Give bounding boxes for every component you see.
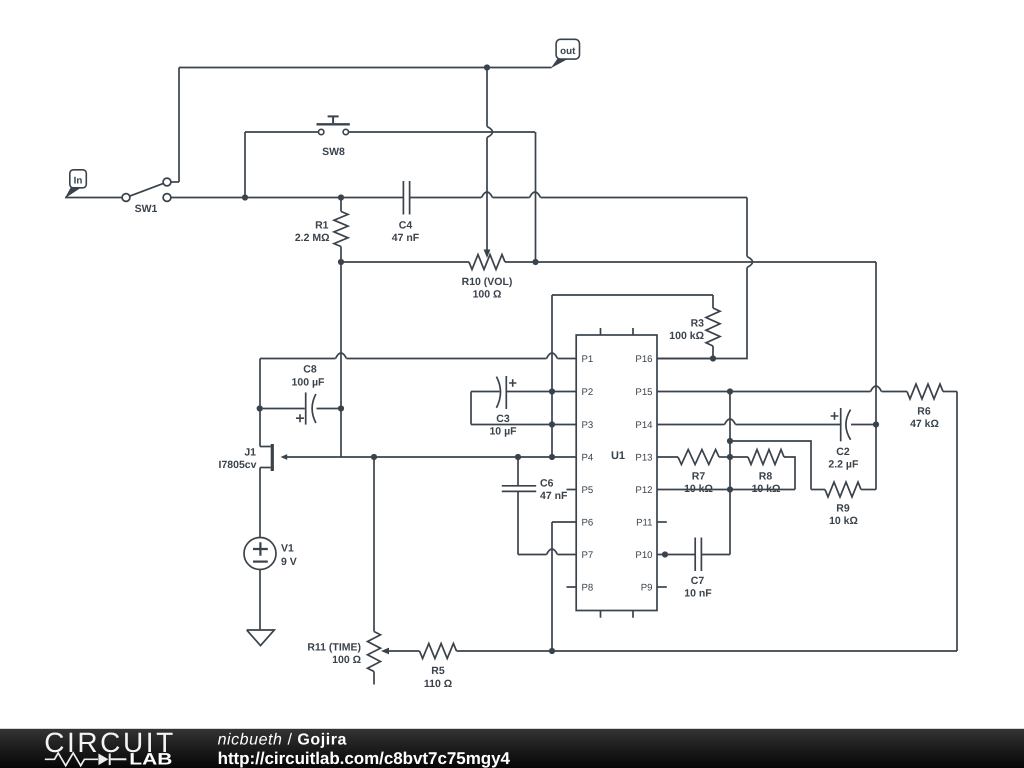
switch SW1 wire arm <box>130 183 164 196</box>
U1 stub P5 <box>567 489 577 491</box>
capacitor C2 polarity <box>831 412 839 420</box>
svg-text:LAB: LAB <box>129 750 172 768</box>
wire C2 right lead <box>851 424 876 426</box>
wire R3 top horizontal <box>552 294 713 296</box>
wire J1 to V1 <box>259 468 261 538</box>
resistor R3 leads <box>712 295 714 359</box>
wire C4 to right corner with hops <box>410 192 747 198</box>
node junction R1 top <box>338 194 344 200</box>
svg-text:2.2 µF: 2.2 µF <box>828 458 859 470</box>
capacitor C8 plate curved <box>312 394 316 423</box>
potentiometer R11 <box>368 632 381 672</box>
svg-text:P14: P14 <box>635 420 653 431</box>
capacitor C8 polarity <box>296 414 304 422</box>
node junction P3 row <box>549 421 555 427</box>
wire vertical P6 column down <box>551 522 553 651</box>
wire SW1 upper contact stub <box>171 181 179 183</box>
resistor R7 <box>678 450 719 465</box>
wire C7 right lead up <box>702 554 731 556</box>
wire R10 to right corner <box>505 261 876 263</box>
svg-text:9 V: 9 V <box>281 556 297 568</box>
svg-text:110 Ω: 110 Ω <box>424 678 452 690</box>
wire C6 bottom lead <box>517 492 519 555</box>
arrow J1 gate <box>281 454 288 460</box>
wire vertical right rail <box>956 392 958 652</box>
svg-text:P2: P2 <box>582 387 594 398</box>
flag out tail <box>551 59 568 69</box>
flag In bubble <box>70 170 87 188</box>
transistor J1 top stub <box>260 446 271 448</box>
switch SW1 upper throw contact <box>163 178 171 186</box>
svg-text:P8: P8 <box>582 583 594 594</box>
wire P12 row <box>657 489 795 491</box>
wire C3 loop vertical <box>470 392 472 425</box>
svg-text:P12: P12 <box>635 485 652 496</box>
wire vertical SW8 corner down to R10 row <box>535 132 537 262</box>
svg-text:P11: P11 <box>636 518 652 529</box>
wire SW8 branch down <box>244 132 246 198</box>
svg-text:P7: P7 <box>582 550 594 561</box>
svg-text:R10 (VOL): R10 (VOL) <box>462 276 513 288</box>
flag In tail <box>65 188 80 199</box>
svg-text:P15: P15 <box>635 387 652 398</box>
flag out bubble <box>556 39 579 59</box>
svg-text:C4: C4 <box>399 220 413 232</box>
footer bar <box>0 729 1024 768</box>
wire P13 to R7 <box>657 456 678 458</box>
svg-text:R8: R8 <box>759 471 773 483</box>
svg-text:C8: C8 <box>303 364 317 376</box>
node junction C6 top <box>515 454 521 460</box>
switch SW8 contact left <box>319 129 324 134</box>
svg-text:100 Ω: 100 Ω <box>332 654 361 666</box>
node junction R1 bottom <box>338 259 344 265</box>
wire top out net <box>179 67 552 69</box>
resistor R8 <box>748 450 784 465</box>
U1 top stubs <box>601 328 634 335</box>
wire vertical R1 column lower <box>340 262 342 457</box>
wire P16 row <box>657 358 713 360</box>
capacitor C7 plate right <box>700 538 702 572</box>
capacitor C6 plate top <box>502 485 536 487</box>
svg-text:R1: R1 <box>315 220 329 232</box>
source V1 minus <box>253 560 268 562</box>
node junction R3 bottom <box>710 355 716 361</box>
wire vertical far-right column <box>875 262 877 490</box>
resistor R5 <box>420 644 457 659</box>
capacitor C2 plate straight <box>840 408 842 441</box>
potentiometer R10 <box>469 255 505 270</box>
node junction at R10 row <box>532 259 538 265</box>
wire R11 bottom stub <box>373 672 375 685</box>
switch SW8 stem <box>332 117 334 123</box>
wire SW1 row to C4 <box>171 197 403 199</box>
wire R8 right lead and drop <box>784 457 795 490</box>
capacitor C3 plate curved <box>496 377 500 408</box>
svg-text:R7: R7 <box>692 471 706 483</box>
wire V1 to ground <box>259 570 261 631</box>
wire J1 gate / P4 row <box>287 456 577 458</box>
switch SW1 lower throw contact <box>163 194 171 202</box>
svg-text:C2: C2 <box>836 446 850 458</box>
wire R8 left lead <box>730 456 748 458</box>
svg-text:P4: P4 <box>582 453 594 464</box>
svg-text:10 nF: 10 nF <box>684 588 712 600</box>
resistor R3 <box>706 308 720 346</box>
capacitor C6 plate bottom <box>502 490 536 492</box>
node junction SW8 branch <box>242 194 248 200</box>
wire P6 to left column <box>552 521 576 523</box>
svg-text:R5: R5 <box>431 665 445 677</box>
capacitor C4 plate left <box>402 181 404 215</box>
node junction R11 top <box>371 454 377 460</box>
capacitor C7 plate left <box>694 538 696 572</box>
transistor J1 bottom stub <box>260 467 271 469</box>
svg-text:P13: P13 <box>635 453 652 464</box>
svg-text:10 µF: 10 µF <box>489 426 517 438</box>
capacitor C3 plate straight <box>505 376 507 409</box>
wire vertical left to SW1 upper throw <box>178 68 180 183</box>
svg-text:SW1: SW1 <box>135 203 158 215</box>
switch SW8 contact right <box>343 129 348 134</box>
node junction P15 column <box>727 388 733 394</box>
wire R9 right lead <box>861 489 876 491</box>
svg-text:100 µF: 100 µF <box>292 377 325 389</box>
svg-text:P3: P3 <box>582 420 594 431</box>
wire SW8 right segment to corner <box>349 131 536 133</box>
wire C3 loop left lead <box>471 391 500 393</box>
switch SW1 pole contact <box>122 194 130 202</box>
wire C8 left lead <box>260 408 305 410</box>
transistor J1 bar <box>271 444 274 471</box>
resistor R1 <box>334 212 348 247</box>
U1 stub P9 <box>657 586 667 588</box>
wire P10 to C7 <box>657 554 695 556</box>
resistor R1 leads <box>340 198 342 263</box>
resistor R9 <box>825 482 861 497</box>
svg-text:100 kΩ: 100 kΩ <box>669 330 704 342</box>
wire P1 row with hops <box>260 353 576 359</box>
svg-text:I7805cv: I7805cv <box>219 459 257 471</box>
capacitor C8 plate straight <box>305 392 307 424</box>
svg-text:2.2 MΩ: 2.2 MΩ <box>295 232 330 244</box>
svg-text:nicbueth / Gojira: nicbueth / Gojira <box>218 732 347 749</box>
node junction C8 left <box>257 405 263 411</box>
svg-text:47 kΩ: 47 kΩ <box>910 418 939 430</box>
svg-text:V1: V1 <box>281 543 294 555</box>
wire vertical left-chip column <box>551 295 553 457</box>
wire vertical out-column to R10 wiper with hop <box>487 68 493 251</box>
node junction C2 right <box>873 421 879 427</box>
capacitor C2 plate curved <box>846 410 851 440</box>
wire P15 row to R6 with hop <box>657 386 907 392</box>
svg-text:R9: R9 <box>836 503 850 515</box>
wire R7 right lead <box>719 456 730 458</box>
capacitor C3 polarity <box>509 379 516 386</box>
ground symbol <box>247 630 275 646</box>
svg-text:C6: C6 <box>540 478 554 490</box>
node junction bottom wire <box>549 648 555 654</box>
arrow R11 wiper <box>381 648 389 655</box>
svg-text:J1: J1 <box>244 447 256 459</box>
node junction P10 pin <box>662 551 668 557</box>
U1 bottom stubs <box>601 611 634 618</box>
CircuitLab logo resistor-diode glyph <box>45 753 98 766</box>
op-amp U1 body <box>576 335 657 611</box>
wire R5 right to bottom rail <box>457 650 958 652</box>
wire R11 top lead <box>373 457 375 632</box>
svg-text:U1: U1 <box>611 450 625 462</box>
wire vertical C4 net corner down to P16 row with hop <box>657 198 753 359</box>
wire In to SW1 <box>65 197 122 199</box>
svg-text:P1: P1 <box>582 354 594 365</box>
svg-text:out: out <box>560 46 576 57</box>
source V1 plus <box>253 542 268 556</box>
wire C6 top lead <box>517 457 519 485</box>
svg-text:C7: C7 <box>691 575 705 587</box>
svg-text:R3: R3 <box>691 318 705 330</box>
wire vertical C8 left column <box>259 359 261 447</box>
wire C8 right lead <box>317 408 342 410</box>
svg-text:P16: P16 <box>635 354 652 365</box>
capacitor C4 plate right <box>409 181 411 215</box>
svg-text:47 nF: 47 nF <box>392 232 420 244</box>
svg-text:10 kΩ: 10 kΩ <box>752 483 781 495</box>
wire P3 row <box>471 424 576 426</box>
svg-text:C3: C3 <box>496 413 510 425</box>
node junction top at out column <box>484 64 490 70</box>
wire mid junction to R9 drop <box>730 441 811 490</box>
svg-text:SW8: SW8 <box>322 146 345 158</box>
wire P14 row to C2 with hop <box>657 419 840 425</box>
svg-text:P6: P6 <box>582 518 594 529</box>
wiper arrow R10 <box>484 250 491 259</box>
wire C3 right lead to P2 <box>506 391 576 393</box>
svg-text:http://circuitlab.com/c8bvt7c7: http://circuitlab.com/c8bvt7c75mgy4 <box>218 749 511 768</box>
wire R11 wiper to R5 <box>387 650 420 652</box>
svg-text:47 nF: 47 nF <box>540 490 568 502</box>
svg-text:R6: R6 <box>917 406 931 418</box>
svg-text:10 kΩ: 10 kΩ <box>829 515 858 527</box>
node junction mid column P13 <box>727 454 733 460</box>
U1 stub P11 <box>657 521 667 523</box>
node junction P4 row end <box>549 454 555 460</box>
node junction C8 right <box>338 405 344 411</box>
source V1 circle <box>244 538 276 570</box>
wire C6 to P7 with hop <box>518 549 576 555</box>
wire R1 bottom junction to R10 <box>341 261 469 263</box>
node junction mid column upper <box>727 438 733 444</box>
svg-text:R11 (TIME): R11 (TIME) <box>307 642 361 654</box>
svg-text:100 Ω: 100 Ω <box>473 289 502 301</box>
node junction P2 row <box>549 388 555 394</box>
U1 stub P8 <box>567 586 577 588</box>
switch SW8 cap <box>328 115 339 117</box>
wire SW8 left segment <box>245 131 318 133</box>
svg-text:In: In <box>74 176 83 187</box>
svg-text:P9: P9 <box>641 583 653 594</box>
svg-text:10 kΩ: 10 kΩ <box>684 483 713 495</box>
switch SW8 pushbutton bar <box>317 123 350 125</box>
wire R9 left lead <box>811 489 825 491</box>
svg-text:P10: P10 <box>635 550 652 561</box>
wire R6 right lead <box>943 391 957 393</box>
wire vertical mid-right column <box>729 392 731 555</box>
node junction mid column P12 <box>727 486 733 492</box>
svg-text:P5: P5 <box>582 485 594 496</box>
resistor R6 <box>907 384 943 399</box>
